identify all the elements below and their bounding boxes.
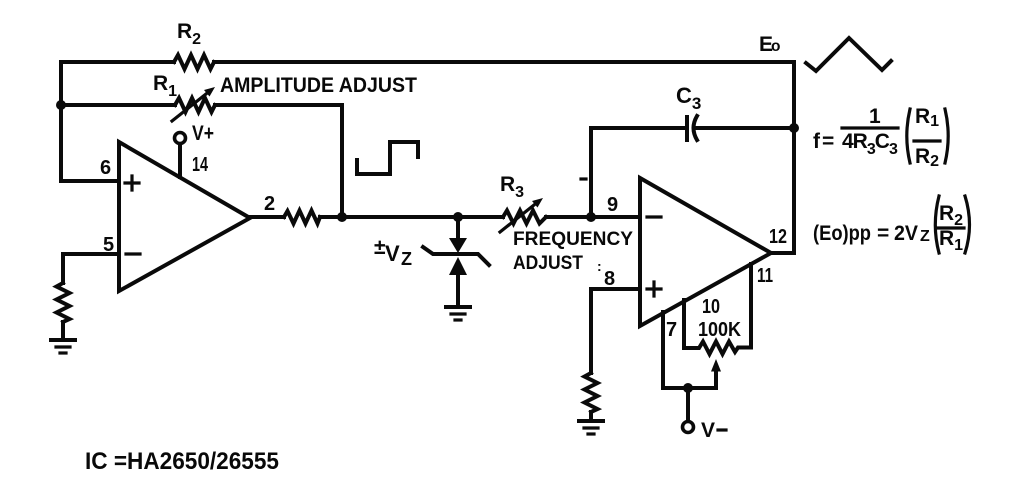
svg-text:=: = [877, 222, 889, 245]
svg-text:9: 9 [607, 194, 618, 216]
svg-text:12: 12 [769, 226, 787, 248]
wire left vertical [59, 62, 63, 181]
ground G3 [579, 419, 603, 423]
node junction V- [683, 383, 693, 393]
wire C3 row left [591, 126, 685, 130]
resistor R5 (output series) [284, 211, 320, 224]
resistor R2 [174, 55, 214, 69]
svg-text:(Eo)pp: (Eo)pp [813, 222, 871, 245]
svg-text:10: 10 [702, 296, 720, 318]
U1 plus input symbol [125, 176, 139, 190]
svg-text:FREQUENCY: FREQUENCY [513, 229, 633, 250]
U2 plus input symbol [647, 282, 661, 296]
wire pin 5 [63, 252, 119, 256]
wire wiper to V- junction [688, 386, 716, 390]
wire output row to R3 [320, 215, 503, 219]
svg-text:100K: 100K [698, 319, 742, 341]
svg-text:Z: Z [401, 249, 412, 269]
potentiometer R7 100K [684, 342, 751, 355]
wire pin 7 to V- junction [663, 386, 688, 390]
arrow of R3 potentiometer [500, 205, 534, 232]
svg-text:Z: Z [920, 228, 930, 245]
triangle wave symbol [806, 38, 891, 71]
capacitor C3 left plate [685, 117, 689, 140]
arrow of R1 potentiometer [172, 94, 206, 121]
zener D2 (bottom) [449, 257, 467, 275]
resistor R4 to ground [57, 283, 70, 322]
wire resistor to ground [61, 322, 65, 339]
svg-text:V: V [385, 241, 400, 266]
U1 minus input symbol [126, 252, 140, 255]
wire V+ stem pin 14 [178, 144, 182, 177]
wire pin 8 [591, 287, 640, 291]
U2 minus input symbol [647, 215, 661, 218]
svg-text:IC =HA2650/26555: IC =HA2650/26555 [85, 448, 279, 475]
svg-text:2V: 2V [894, 222, 918, 245]
svg-text:=: = [822, 130, 834, 153]
svg-text:1: 1 [869, 105, 881, 128]
wire V- stem [686, 388, 690, 421]
ground G1 [51, 338, 75, 342]
ground G2 [446, 305, 470, 309]
pot wiper arrow [714, 371, 718, 388]
wire C3 row right [697, 126, 794, 130]
node junction R1/left rail [56, 100, 66, 110]
wire pin 11 stem [749, 264, 753, 346]
node junction zener tap [453, 212, 463, 222]
resistor R1 potentiometer [175, 98, 215, 112]
svg-text:2: 2 [264, 193, 275, 215]
wire U2 output to rail [771, 251, 794, 255]
wire pin 10 stem [682, 300, 686, 346]
node junction C3/Eo rail [789, 123, 799, 133]
wire R1 row right [215, 103, 342, 107]
wire R1 row left [61, 103, 175, 107]
svg-text:V: V [701, 419, 715, 442]
wire pin 6 [61, 179, 119, 183]
wire C3 left vertical [589, 128, 593, 217]
wire resistor to ground [589, 412, 593, 420]
svg-text:V+: V+ [192, 122, 214, 145]
square wave symbol [357, 142, 418, 174]
svg-text:ADJUST: ADJUST [513, 253, 583, 274]
wire Eo vertical rail [792, 62, 796, 253]
wire U1 output [250, 215, 284, 219]
zener D1 (top, cathode up) [449, 238, 467, 253]
resistor R3 potentiometer [503, 211, 546, 224]
svg-text:8: 8 [604, 268, 615, 290]
V- terminal circle [683, 422, 694, 433]
svg-text:6: 6 [100, 157, 111, 179]
op-amp U2 [640, 178, 771, 326]
wire R3 to pin 9 [546, 215, 640, 219]
svg-text:7: 7 [666, 319, 677, 341]
wire zener to ground [456, 275, 460, 306]
node junction output/vertical [337, 212, 347, 222]
svg-text:f: f [813, 130, 821, 153]
wire pin 8 vertical [589, 289, 593, 373]
wire top feedback right segment to Eo [214, 60, 794, 64]
op-amp U1 [119, 142, 250, 291]
svg-text::: : [597, 258, 602, 274]
capacitor C3 right plate [694, 116, 698, 140]
artifact dash [581, 177, 586, 180]
wire pin 5 vertical to resistor [61, 254, 65, 283]
V+ terminal circle [175, 133, 186, 144]
wire top feedback left segment [61, 60, 174, 64]
zener bar [423, 247, 489, 265]
resistor R6 to ground [585, 373, 598, 412]
wire zener stem [456, 217, 460, 239]
wire vertical from R1 to output node [340, 105, 344, 217]
svg-text:AMPLITUDE ADJUST: AMPLITUDE ADJUST [220, 74, 417, 97]
node junction pin9/C3 [586, 212, 596, 222]
svg-text:11: 11 [757, 265, 773, 287]
svg-text:14: 14 [192, 154, 209, 176]
wire pin 7 stem [661, 312, 665, 388]
